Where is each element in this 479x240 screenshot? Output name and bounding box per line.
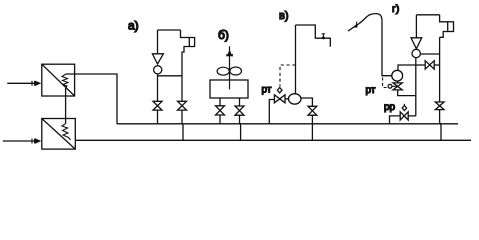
wire HX1 to HX2 interconnection [65,88,67,124]
temperature regulator actuator diamond v [277,88,282,93]
control valve RT v [274,95,285,103]
water tap dot v [322,36,325,39]
wire valve V1 to supply pipe [157,110,159,124]
radiator return jog a [182,47,189,76]
HX2 inlet arrow line [3,140,35,142]
wire elevator suction branch a [158,75,183,77]
heat exchanger HX1 diagonal [42,64,75,96]
wire radiator return down g [439,37,441,102]
actuator tick g [403,104,405,106]
air heater unit box b [210,80,248,98]
wire valve V6 line g [434,64,439,66]
valve V7 on right drop g [435,102,444,110]
valve V4 b [235,106,244,115]
wire top horizontal g [416,14,439,16]
return main pipe [75,139,471,141]
elevator mixing chamber circle a [154,66,162,74]
wire valve V3 to supply pipe b [219,115,221,124]
svg-text:а): а) [128,19,139,33]
wire heater connection right b [239,98,241,106]
wire junction to valve V6 g [416,64,426,66]
wire valve V4 down crossing supply pipe b [240,115,241,140]
svg-text:г): г) [392,3,399,15]
wire valve left to down pipe v [269,100,274,124]
svg-text:рр: рр [384,102,396,113]
fan blade left b [217,67,229,75]
svg-text:б): б) [218,28,229,42]
wire valve RT outlet g [398,90,416,96]
control valve RR horizontal g [400,112,408,120]
HX1 inlet arrow line [7,82,35,84]
svg-text:в): в) [279,10,289,22]
valve V6 horizontal g [425,61,434,69]
svg-text:рт: рт [366,85,376,96]
wire pump top to junction g [398,65,416,70]
elevator nozzle triangle a [152,54,163,64]
wire elevator suction horizontal g [420,53,439,55]
heat exchanger HX1 coil zigzag [62,74,68,88]
wire RR valve right g [408,115,416,117]
valve V1 on elevator line a [153,101,162,110]
HX1 inlet arrowhead [35,81,41,86]
heat exchanger HX2 coil zigzag [62,124,71,140]
wire valve to pump v [285,98,289,100]
fan airflow arrowhead b [227,50,233,57]
HX2 inlet arrow ticks [31,139,33,144]
valve V3 b [216,106,225,115]
wire riser a [157,30,159,54]
control valve RT g vertical [393,83,402,90]
wire riser top run v [296,25,331,47]
water tap stem v [322,34,324,38]
radiator return jog g [440,32,448,38]
hot water riser v [295,25,297,94]
wire elevator bottom to junction g [415,58,417,116]
wire pump bottom to valve g [397,81,399,83]
wire elevator outlet down a [157,74,159,101]
circulation pump circle v [288,94,301,104]
radiator riser jog g [440,15,448,22]
fan shaft b [229,46,231,89]
heat exchanger HX1 box [42,64,75,96]
heat exchanger HX2 box [42,119,76,150]
HX1 outlet line to riser [66,74,117,124]
impulse dashed line v [280,65,296,87]
impulse dashed line g [383,78,388,88]
wire radiator return down a [181,76,183,102]
supply main pipe [117,123,458,125]
circulation pump circle g [392,70,403,81]
wire top horizontal a [158,29,181,31]
wire swan neck down to pump inlet g [382,58,392,76]
radiator box a [189,38,194,47]
wire pump outlet to drop v [300,98,312,106]
water tap top bar v [322,33,325,35]
flow regulator actuator diamond g [402,106,406,111]
heat exchanger HX2 diagonal [42,119,76,150]
shower swan neck g [348,14,382,58]
actuator stem g [392,85,398,87]
elevator mixing chamber circle g [412,49,420,57]
HX1 inlet arrow ticks [31,81,33,86]
radiator box g [448,22,454,32]
elevator nozzle triangle g [411,38,422,49]
shower tap stem g [355,22,358,27]
HX2 inlet arrowhead [35,138,41,143]
elevator riser g [415,15,417,38]
wire valve V2 down crossing supply pipe [182,110,183,140]
wire heater connection left b [219,98,221,106]
radiator riser jog a [181,30,190,38]
fan blade right b [230,67,242,75]
valve V5 v [308,106,317,115]
svg-text:рт: рт [262,85,272,96]
wire RR valve left riser g [390,116,401,124]
valve V2 on return line a [178,101,187,110]
wire valve V7 down crossing supply pipe g [440,110,441,141]
shower tap dot g [355,25,358,28]
wire valve V5 down to return pipe v [311,115,313,140]
temperature regulator actuator circle g [388,84,392,88]
